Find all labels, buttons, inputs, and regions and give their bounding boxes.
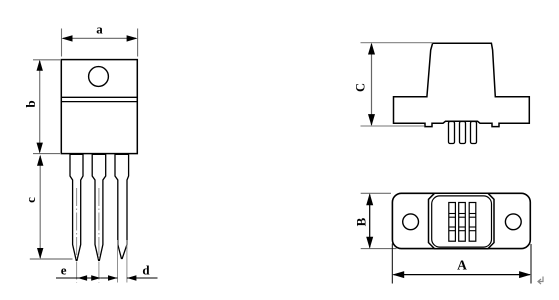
dimension a label [96,21,103,36]
dimension A line with arrows [392,271,531,278]
pin slot column 1 [449,203,456,242]
left mounting hole [403,214,419,230]
package body front view [61,60,137,154]
side view outline [394,43,530,126]
pin slot column 2 [459,203,466,242]
dimension A extension lines [392,244,531,284]
dimension A label [457,258,467,273]
right mounting hole [505,214,521,230]
lead 1 [70,154,83,260]
tab groove double line [61,97,137,101]
dimension b line with arrows [37,60,43,154]
dimension B extension lines [361,193,397,248]
side view pin 2 [460,122,466,144]
dimension b extension lines [33,60,60,154]
svg-text:c: c [23,197,38,203]
svg-text:B: B [354,217,369,226]
center boss octagon outline [429,193,495,248]
dimension c extension line bottom [30,258,73,260]
dimension B line with arrows [366,193,373,248]
dimension c line with arrows [37,155,43,259]
svg-text:C: C [353,83,367,92]
dimension d label [142,262,150,277]
side view pin 1 [449,122,455,144]
dimension e line with arrows [56,275,101,281]
side view pin 3 [471,122,477,144]
dimension C extension lines [361,43,434,126]
lead 3 [115,154,129,258]
dimension a line with arrows [62,35,138,41]
pin slot column 3 [469,203,476,242]
dimension a extension lines [62,29,138,57]
lead 2 center line [98,188,100,283]
mounting hole [89,67,109,87]
dimension C label [353,83,367,92]
center boss inner outline [432,196,492,247]
svg-text:e: e [61,262,67,277]
dimension e label [61,262,67,277]
dimension d line with arrows [101,275,158,281]
lead 1 center line [76,188,78,283]
svg-text:b: b [23,100,38,107]
svg-text:A: A [457,258,467,273]
lead 2 [92,154,106,260]
svg-text:a: a [96,21,103,36]
dimension B label [354,217,369,226]
paragraph return mark [538,277,543,285]
dimension c label [23,197,38,203]
bottom view body outline [392,193,530,248]
dimension b label [23,100,38,107]
dimension C line with arrows [368,43,375,126]
lead 3 edge extension lines [118,240,127,283]
svg-text:d: d [142,262,150,277]
